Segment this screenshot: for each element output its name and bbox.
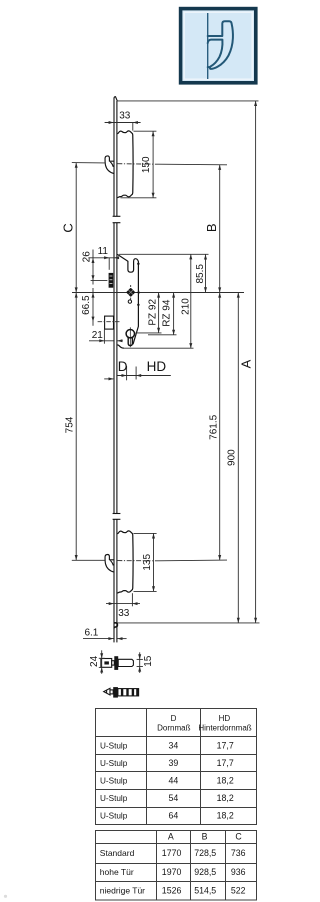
svg-text:34: 34 bbox=[169, 740, 179, 750]
svg-text:6.1: 6.1 bbox=[84, 627, 98, 638]
svg-text:17,7: 17,7 bbox=[217, 758, 234, 768]
svg-text:18,2: 18,2 bbox=[217, 776, 234, 786]
dimension 85.5 bbox=[205, 254, 207, 292]
small hole below follower bbox=[128, 300, 131, 303]
follower axis extension line bbox=[72, 292, 244, 294]
svg-text:A: A bbox=[239, 359, 254, 368]
lower hook bbox=[105, 555, 114, 573]
svg-text:26: 26 bbox=[81, 251, 92, 263]
svg-text:U-Stulp: U-Stulp bbox=[100, 759, 128, 768]
svg-text:728,5: 728,5 bbox=[194, 848, 216, 858]
svg-text:RZ 94: RZ 94 bbox=[162, 299, 173, 327]
svg-text:Standard: Standard bbox=[100, 848, 135, 858]
dimension D / HD bbox=[104, 366, 171, 380]
dimension 21 bbox=[89, 329, 123, 343]
svg-text:928,5: 928,5 bbox=[194, 867, 216, 877]
svg-text:135: 135 bbox=[142, 554, 153, 571]
svg-text:hohe Tür: hohe Tür bbox=[100, 867, 134, 877]
dimension 26 bbox=[91, 250, 108, 285]
svg-text:210: 210 bbox=[181, 298, 192, 315]
svg-text:761.5: 761.5 bbox=[209, 414, 220, 439]
svg-text:D: D bbox=[118, 359, 128, 374]
dimension RZ 94 bbox=[148, 293, 177, 335]
euro cylinder keyhole bbox=[126, 327, 134, 347]
svg-text:D: D bbox=[171, 714, 177, 723]
svg-text:64: 64 bbox=[169, 811, 179, 821]
top extension line from plate tip bbox=[118, 100, 259, 102]
faceplate (Stulp) segment 1 with top tip bbox=[113, 97, 121, 217]
dimension PZ 92 bbox=[136, 293, 162, 333]
svg-text:33: 33 bbox=[119, 111, 131, 122]
svg-text:754: 754 bbox=[65, 416, 76, 433]
svg-text:1770: 1770 bbox=[162, 848, 182, 858]
svg-text:150: 150 bbox=[141, 156, 152, 173]
svg-text:U-Stulp: U-Stulp bbox=[100, 741, 128, 750]
dimension 6.1 bbox=[83, 638, 114, 640]
svg-text:U-Stulp: U-Stulp bbox=[100, 812, 128, 821]
svg-text:33: 33 bbox=[118, 608, 130, 619]
lower hook housing bbox=[117, 531, 133, 593]
svg-text:B: B bbox=[204, 223, 219, 232]
svg-text:HD: HD bbox=[219, 714, 231, 723]
lower hook axis extension line bbox=[72, 559, 227, 562]
svg-text:U-Stulp: U-Stulp bbox=[100, 777, 128, 786]
svg-text:18,2: 18,2 bbox=[217, 811, 234, 821]
table 2 text bbox=[162, 832, 246, 896]
svg-text:15: 15 bbox=[143, 655, 154, 667]
case bottom extension line bbox=[124, 347, 194, 349]
svg-text:A: A bbox=[168, 832, 174, 842]
svg-text:44: 44 bbox=[169, 776, 179, 786]
svg-text:PZ 92: PZ 92 bbox=[147, 299, 158, 326]
svg-text:936: 936 bbox=[231, 867, 246, 877]
dimension 11 bbox=[88, 258, 117, 270]
svg-text:C: C bbox=[60, 223, 75, 232]
svg-text:522: 522 bbox=[231, 886, 246, 896]
dimension 135 bbox=[134, 533, 157, 591]
case top extension line bbox=[119, 253, 209, 255]
bottom extension line from plate bottom bbox=[118, 622, 260, 624]
svg-text:39: 39 bbox=[169, 758, 179, 768]
dimension 15 bbox=[137, 652, 143, 673]
svg-text:17,7: 17,7 bbox=[217, 740, 234, 750]
svg-text:21: 21 bbox=[92, 330, 104, 341]
top hook bbox=[105, 156, 114, 174]
lock case outline bbox=[117, 254, 138, 348]
faint dot bottom left bbox=[4, 895, 7, 898]
table 2 grid bbox=[96, 831, 257, 901]
DIN marking block bbox=[109, 273, 114, 288]
svg-text:Dornmaß: Dornmaß bbox=[157, 723, 190, 732]
svg-text:Hinterdornmaß: Hinterdornmaß bbox=[198, 723, 251, 732]
icon faceplate line bbox=[207, 13, 209, 79]
table 1 text bbox=[157, 714, 252, 733]
svg-text:B: B bbox=[202, 832, 208, 842]
dimension 210 bbox=[190, 254, 192, 348]
svg-text:C: C bbox=[235, 832, 242, 842]
dimension 33 bottom bbox=[106, 593, 140, 606]
dimension 761.5 bbox=[219, 293, 221, 561]
svg-text:66.5: 66.5 bbox=[81, 295, 92, 315]
top hook axis extension line bbox=[72, 163, 227, 165]
svg-text:11: 11 bbox=[98, 246, 109, 257]
faceplate segment 2 bbox=[113, 223, 121, 520]
faceplate break gap caps bbox=[113, 222, 121, 224]
svg-text:900: 900 bbox=[226, 449, 237, 466]
svg-text:18,2: 18,2 bbox=[217, 793, 234, 803]
svg-text:1970: 1970 bbox=[162, 867, 182, 877]
icon hook symbol bbox=[208, 21, 233, 69]
icon box bbox=[181, 9, 256, 83]
svg-text:24: 24 bbox=[89, 655, 100, 667]
faceplate segment 3 with bottom tip bbox=[114, 519, 117, 642]
top hook housing bbox=[117, 131, 133, 198]
small part 1 (mushroom cam pin) bbox=[101, 659, 133, 668]
follower (spindle square) bbox=[126, 285, 135, 300]
small part 2 (adjustable cam) bbox=[104, 688, 139, 696]
dimension B bbox=[219, 165, 221, 293]
svg-text:54: 54 bbox=[169, 793, 179, 803]
svg-text:736: 736 bbox=[231, 848, 246, 858]
svg-text:514,5: 514,5 bbox=[194, 886, 216, 896]
dimension 33 top bbox=[105, 123, 141, 131]
dimension 150 bbox=[121, 131, 157, 198]
svg-text:niedrige Tür: niedrige Tür bbox=[100, 886, 145, 896]
faceplate bottom stop lug bbox=[114, 623, 118, 628]
dimension C bbox=[75, 163, 77, 293]
table 1 grid bbox=[96, 709, 257, 825]
svg-text:HD: HD bbox=[147, 359, 167, 374]
svg-text:1526: 1526 bbox=[162, 886, 182, 896]
dimension 24 bbox=[99, 650, 105, 674]
dimension 66.5 bbox=[92, 288, 94, 326]
dimension 754 bbox=[75, 293, 77, 561]
case edge tick marks bbox=[137, 263, 139, 265]
svg-text:U-Stulp: U-Stulp bbox=[100, 794, 128, 803]
escutcheon box on plate left bbox=[105, 316, 114, 329]
dimension A bbox=[255, 101, 257, 623]
svg-text:85.5: 85.5 bbox=[195, 264, 206, 284]
dimension 900 bbox=[237, 293, 239, 623]
